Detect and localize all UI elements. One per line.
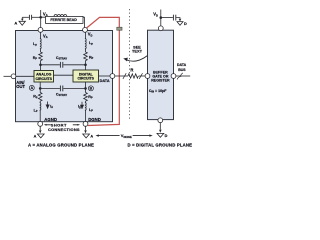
analog supply lead: wire bbox=[40, 32, 42, 39]
DGND ground symbol bbox=[83, 126, 90, 138]
svg-text:D: D bbox=[184, 22, 187, 26]
wire to junction bbox=[85, 61, 87, 70]
DATA pin node bbox=[110, 74, 115, 79]
digital supply lead: wire bbox=[85, 32, 87, 39]
decoupling cap (VD to A plane) on red path bbox=[117, 27, 122, 30]
inductor LP (analog supply) bbox=[40, 39, 41, 49]
break squiggle data bus bbox=[177, 73, 183, 80]
dashed partition line bbox=[129, 9, 131, 120]
svg-text:CONNECTIONS: CONNECTIONS bbox=[48, 127, 80, 132]
ANALOG CIRCUITS block bbox=[34, 71, 54, 83]
svg-text:REGISTER: REGISTER bbox=[151, 78, 170, 82]
inductor LP (digital supply) bbox=[85, 39, 86, 49]
AIN/OUT pin node bbox=[11, 74, 16, 79]
resistor R (data series) bbox=[128, 74, 138, 78]
wire analog block to digital block bbox=[54, 74, 74, 76]
wire digital block to node B bbox=[85, 82, 87, 93]
wire to data bus bbox=[176, 75, 190, 77]
wire CSTRAY lower left bbox=[40, 87, 60, 89]
wire resistor to buffer bbox=[139, 75, 146, 77]
ground A (top left) bbox=[19, 17, 25, 25]
capacitor CSTRAY (supply) bbox=[60, 62, 62, 68]
wire bbox=[85, 49, 87, 52]
AGND ground symbol bbox=[37, 126, 44, 138]
svg-text:VNOISE: VNOISE bbox=[121, 133, 132, 139]
current IA arrow bbox=[47, 102, 49, 109]
wire cap to ground D bbox=[176, 18, 180, 20]
capacitor CSTRAY (lower) bbox=[60, 86, 62, 92]
wire bead to VD pin bbox=[84, 17, 86, 27]
svg-text:CIRCUITS: CIRCUITS bbox=[77, 77, 94, 81]
wire junction to cap bbox=[161, 17, 173, 19]
svg-text:D = DIGITAL GROUND PLANE: D = DIGITAL GROUND PLANE bbox=[128, 142, 193, 147]
wire junction to ferrite bead bbox=[41, 16, 85, 18]
resistor RP (analog supply) bbox=[39, 52, 43, 61]
capacitor (VA decoupling) bbox=[29, 15, 31, 20]
node label B (circled) bbox=[88, 86, 93, 91]
junction node A bbox=[39, 87, 42, 90]
capacitor (VD decoupling) bbox=[173, 15, 175, 21]
wire bbox=[39, 101, 41, 103]
wire AIN to analog block bbox=[16, 75, 34, 77]
wire bbox=[85, 101, 87, 103]
buffer package box bbox=[148, 30, 174, 119]
wire bbox=[40, 49, 42, 52]
buffer top supply node bbox=[158, 26, 163, 31]
inductor LP (digital ground) bbox=[85, 103, 86, 111]
svg-text:A = ANALOG GROUND PLANE: A = ANALOG GROUND PLANE bbox=[28, 142, 94, 147]
svg-text:OUT: OUT bbox=[16, 84, 25, 89]
break slash left bbox=[123, 73, 126, 79]
svg-text:A: A bbox=[14, 21, 17, 26]
svg-text:VD: VD bbox=[153, 12, 158, 18]
VD riser (buffer supply) bbox=[160, 10, 162, 27]
svg-text:A: A bbox=[34, 135, 37, 139]
svg-text:BUS: BUS bbox=[178, 68, 186, 72]
buffer input node bbox=[145, 74, 150, 79]
wire ground to cap bbox=[22, 16, 29, 18]
svg-text:D: D bbox=[165, 134, 168, 138]
svg-text:DATA: DATA bbox=[177, 63, 187, 67]
VA supply riser bbox=[40, 10, 42, 28]
red noise current path bbox=[87, 17, 120, 125]
DGND pin node bbox=[83, 122, 88, 127]
resistor RP (digital supply) bbox=[84, 52, 88, 61]
ground D (top right) bbox=[177, 19, 183, 26]
resistor RP (analog ground) bbox=[38, 93, 42, 102]
inductor LP (analog ground) bbox=[40, 103, 41, 111]
svg-text:R: R bbox=[130, 67, 133, 72]
svg-text:TEXT: TEXT bbox=[132, 48, 143, 53]
DIGITAL CIRCUITS block bbox=[73, 70, 99, 82]
resistor RP (digital ground) bbox=[84, 93, 88, 102]
junction VA rail bbox=[39, 16, 42, 19]
buffer output node bbox=[171, 74, 176, 79]
ferrite bead box bbox=[46, 16, 84, 23]
svg-text:CIRCUITS: CIRCUITS bbox=[35, 77, 52, 81]
VNOISE arrows bbox=[97, 135, 119, 137]
wire to DGND pin bbox=[85, 110, 87, 121]
VA pin node bbox=[38, 28, 43, 33]
short connections arrows bbox=[45, 124, 51, 126]
wire analog block to node A bbox=[39, 82, 41, 93]
ferrite bead coil bbox=[54, 15, 67, 17]
wire supply CSTRAY left bbox=[41, 64, 60, 66]
buffer ground symbol D bbox=[157, 123, 164, 138]
wire DATA to resistor bbox=[115, 75, 128, 77]
node label A (circled) bbox=[29, 85, 34, 90]
svg-text:DATA: DATA bbox=[100, 79, 110, 83]
junction digital rail bbox=[84, 64, 87, 67]
wire CSTRAY lower right bbox=[63, 87, 85, 89]
wire to AGND pin bbox=[39, 110, 41, 121]
curved arrow (see text) bbox=[126, 56, 148, 62]
wire supply CSTRAY right bbox=[63, 64, 85, 66]
DATA wire inside IC bbox=[99, 75, 111, 77]
svg-text:AGND: AGND bbox=[44, 117, 57, 122]
break slash right bbox=[139, 73, 142, 79]
current ID arrow bbox=[81, 102, 83, 109]
buffer ground node bbox=[158, 118, 163, 123]
svg-text:A: A bbox=[90, 135, 93, 139]
wire cap to VA junction bbox=[32, 16, 41, 18]
wire to junction bbox=[40, 61, 42, 71]
wire AIN external bbox=[4, 75, 12, 77]
VD pin node bbox=[83, 28, 88, 33]
svg-text:DGND: DGND bbox=[88, 117, 101, 122]
junction analog rail bbox=[39, 64, 42, 67]
IC package box bbox=[16, 31, 113, 122]
svg-text:FERRITE BEAD: FERRITE BEAD bbox=[50, 18, 77, 22]
AGND pin node bbox=[38, 122, 43, 127]
junction VD rail bbox=[160, 16, 163, 19]
junction node B bbox=[84, 87, 87, 90]
